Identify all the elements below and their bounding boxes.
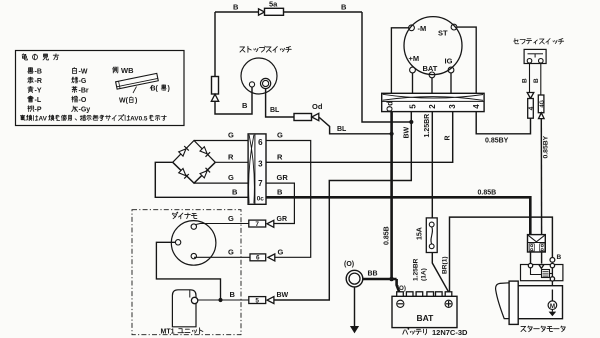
battery plus symbol	[445, 300, 452, 307]
wire 0.85B thick vertical	[390, 112, 393, 279]
diode bottom-left	[179, 169, 189, 179]
wire rect G bottom	[194, 173, 248, 183]
svg-text:B: B	[533, 78, 540, 83]
dynamo dashed box	[132, 210, 241, 335]
svg-text:): )	[168, 86, 170, 93]
fuse 15A	[417, 218, 438, 253]
svg-text:IG: IG	[445, 57, 453, 66]
svg-text:MT1: MT1	[161, 329, 175, 336]
label B	[242, 101, 248, 110]
wire B MT1 to conn5	[198, 290, 249, 300]
connector 4G	[538, 95, 545, 119]
solenoid terminal right	[550, 263, 554, 267]
svg-text:4: 4	[472, 104, 481, 109]
svg-text:B: B	[277, 187, 283, 196]
diode bottom-right	[200, 168, 210, 178]
dynamo terminal left	[175, 240, 180, 245]
MT1 unit body	[172, 290, 196, 327]
junction 0.85B-battery	[389, 277, 394, 282]
mid connector block	[248, 134, 266, 204]
svg-text:-M: -M	[418, 24, 427, 33]
diode top-right	[200, 147, 210, 157]
stop switch body	[241, 58, 277, 94]
wire G dynamo to conn6	[194, 247, 250, 257]
svg-text:R: R	[277, 152, 283, 161]
svg-text:-P: -P	[35, 107, 42, 114]
svg-text:6: 6	[258, 138, 263, 147]
wire ST lead	[457, 27, 476, 93]
wire BB to junction	[362, 278, 396, 281]
svg-text:0c: 0c	[257, 195, 265, 202]
svg-text:12N7C-3D: 12N7C-3D	[432, 328, 468, 337]
svg-text:G: G	[278, 247, 284, 256]
svg-text:R: R	[444, 135, 451, 140]
label 1.25BR rotated	[412, 258, 419, 281]
svg-text:(1A): (1A)	[420, 268, 427, 281]
ignition terminal ST	[438, 24, 457, 37]
wire dynamo left loop	[156, 242, 220, 300]
svg-text:0.85BY: 0.85BY	[542, 135, 549, 158]
wire B fuse-to-BW drop	[362, 12, 411, 122]
battery minus symbol	[397, 300, 404, 307]
wire BW path	[274, 112, 411, 300]
wire X-conn to solenoid mid	[541, 252, 543, 264]
label GR	[277, 216, 288, 223]
svg-text:+M: +M	[409, 54, 420, 63]
stop switch terminal left	[249, 82, 254, 87]
starter X-connector	[528, 235, 546, 252]
solenoid terminal arrow	[539, 265, 544, 269]
svg-text:B: B	[233, 3, 239, 12]
fuse 5a	[259, 0, 284, 15]
label (1A) rotated	[420, 268, 427, 281]
svg-text:0.85B: 0.85B	[384, 226, 391, 245]
label BW	[277, 292, 289, 299]
svg-text:(O): (O)	[397, 285, 406, 292]
label セフティスイッチ	[514, 39, 564, 45]
svg-text:WB: WB	[121, 66, 134, 75]
svg-text:-O: -O	[79, 97, 87, 104]
label BW rotated	[403, 126, 410, 138]
svg-text:0.85BY: 0.85BY	[485, 138, 509, 145]
wire 0.85BY pin4 path	[476, 112, 530, 134]
solenoid terminal B top	[550, 254, 562, 262]
safety terminal right	[539, 59, 544, 64]
label 0.85BY	[485, 138, 509, 145]
svg-text:BR(1): BR(1)	[441, 256, 448, 274]
label BL	[337, 126, 347, 133]
wire BAT lead	[431, 78, 433, 94]
svg-text:M: M	[550, 303, 555, 310]
mid block pin 0c	[257, 195, 265, 202]
label BL	[270, 107, 280, 114]
connector 7	[249, 220, 274, 228]
wire stop-switch left drop	[214, 12, 216, 77]
svg-text:Od: Od	[386, 101, 395, 112]
svg-text:BB: BB	[368, 271, 378, 278]
legend row 青-L 橙-O	[28, 96, 87, 104]
wire -M lead	[391, 28, 408, 94]
svg-text:AV0.5: AV0.5	[130, 116, 148, 123]
svg-text:15A: 15A	[417, 227, 424, 240]
svg-text:B: B	[242, 101, 248, 110]
wire fuse to battery+	[432, 253, 448, 292]
label BR(1) rotated	[441, 256, 448, 274]
wire GR pin7 path	[266, 173, 294, 224]
svg-text:3: 3	[258, 159, 263, 168]
dynamo terminal top	[191, 224, 196, 229]
ignition terminal IG	[445, 57, 454, 73]
rectifier bridge edges	[173, 141, 216, 184]
safety terminal left	[527, 59, 532, 64]
svg-text:6: 6	[256, 255, 260, 262]
label B	[341, 3, 347, 12]
svg-text:-B: -B	[35, 69, 42, 76]
wire G pin6 path	[266, 131, 311, 258]
label (O)	[397, 285, 406, 292]
safety switch body	[524, 49, 546, 63]
svg-text:G: G	[228, 131, 234, 140]
svg-text:BW: BW	[277, 292, 289, 299]
svg-text:-R: -R	[35, 78, 42, 85]
svg-text:BAT: BAT	[417, 313, 435, 323]
wire 0.85BY safety vertical	[540, 119, 542, 235]
dynamo terminal bottom	[191, 253, 196, 258]
label (O)	[344, 261, 354, 268]
solenoid terminal bottom	[550, 277, 554, 281]
svg-text:(O): (O)	[344, 261, 354, 268]
svg-text:1.25BR: 1.25BR	[424, 114, 431, 138]
wire R path	[266, 112, 453, 163]
svg-text:0.85B: 0.85B	[478, 189, 497, 196]
svg-text:4G: 4G	[540, 99, 546, 107]
wire battery minus lead	[397, 279, 400, 292]
label BAT	[417, 313, 435, 323]
svg-text:B: B	[230, 290, 236, 299]
svg-text:R: R	[228, 152, 234, 161]
svg-text:-G: -G	[79, 78, 87, 85]
wire B top-right horizontal	[284, 11, 363, 13]
label スタータモータ	[521, 326, 565, 332]
wire BL to junction	[319, 117, 392, 134]
legend row 黒-B 白-W	[28, 67, 88, 75]
connector 6	[250, 254, 275, 262]
svg-text:7: 7	[255, 221, 259, 228]
svg-text:GR: GR	[277, 173, 289, 182]
ignition terminal +M	[409, 54, 420, 73]
svg-text:-Gy: -Gy	[79, 107, 91, 114]
label G	[278, 247, 284, 256]
ignition terminal -M	[409, 24, 427, 33]
legend row 赤-R 緑-G	[28, 77, 87, 85]
svg-text:Od: Od	[312, 102, 323, 111]
svg-text:BW: BW	[403, 126, 410, 138]
ignition block pin 3	[448, 104, 457, 109]
starter motor nose	[496, 283, 510, 319]
junction MT1-dynamo	[218, 298, 222, 302]
wire 1.25BR vertical	[431, 112, 433, 218]
legend title 色の見方	[22, 54, 59, 60]
legend label W(白)	[119, 97, 137, 105]
ignition connector block	[382, 93, 484, 111]
wire G dynamo to conn7	[196, 214, 249, 225]
wire solenoid to motor	[551, 281, 553, 286]
motor M symbol	[548, 301, 557, 310]
starter motor body	[518, 286, 562, 319]
legend row 黄-Y 茶-Br	[28, 86, 89, 94]
label B	[233, 3, 239, 12]
svg-text:ST: ST	[438, 29, 448, 38]
legend label B(黒)	[151, 85, 170, 93]
label バッテリ 12N7C-3D	[403, 328, 468, 337]
label MT1ユニット	[161, 328, 203, 336]
ignition block pin Od	[386, 101, 395, 112]
ignition block pin 5	[408, 104, 417, 109]
label 0.85BY rotated	[542, 135, 549, 158]
legend note	[20, 114, 166, 122]
mid block pin 7	[258, 179, 263, 188]
wire rect G top	[194, 131, 248, 141]
legend 例 WB	[113, 66, 134, 75]
label 0.85B	[478, 189, 497, 196]
legend row 桃-P 灰-Gy	[28, 106, 91, 114]
label ストップスイッチ	[240, 46, 291, 52]
svg-text:5: 5	[408, 104, 417, 109]
wire safety right drop	[533, 63, 541, 95]
connector Od	[294, 102, 323, 121]
svg-text:G: G	[228, 247, 234, 256]
svg-text:5: 5	[255, 297, 259, 304]
solenoid coil	[531, 268, 553, 278]
ignition terminal BAT	[423, 64, 438, 78]
svg-text:G: G	[277, 131, 283, 140]
MT1 terminal	[191, 297, 197, 303]
motor terminal	[550, 286, 554, 290]
svg-text:-L: -L	[35, 97, 42, 104]
wire 0.85B thick horizontal	[266, 187, 530, 234]
wire safety left drop	[522, 63, 530, 93]
svg-text:-Br: -Br	[79, 88, 89, 95]
wire rect R	[215, 152, 248, 162]
svg-text:BL: BL	[337, 126, 347, 133]
svg-text:3: 3	[448, 104, 457, 109]
connector stop-switch left	[211, 77, 218, 102]
junction BL-0.85B	[390, 132, 394, 136]
wire B top-left horizontal	[215, 11, 259, 13]
label BB	[368, 271, 378, 278]
svg-text:BL: BL	[270, 107, 280, 114]
svg-text:B: B	[232, 187, 238, 196]
wire BR(1) path	[450, 217, 553, 292]
wire X-conn to solenoid left	[530, 252, 532, 264]
svg-text:BAT: BAT	[423, 64, 438, 73]
battery terminals	[397, 292, 452, 297]
svg-text:G: G	[228, 173, 234, 182]
junction B-BW	[409, 120, 413, 124]
wire rectifier left loop	[155, 162, 248, 197]
label R	[277, 152, 283, 161]
connector 5	[249, 297, 274, 305]
wire IG lead	[450, 73, 452, 93]
svg-text:7: 7	[258, 179, 263, 188]
dynamo body	[171, 221, 216, 266]
wire stop-switch left loop	[215, 87, 252, 114]
svg-text:5a: 5a	[269, 0, 278, 9]
ignition block pin 4	[472, 104, 481, 109]
svg-text:): )	[135, 98, 137, 105]
motor ground	[549, 310, 557, 317]
ignition switch body	[404, 17, 462, 75]
svg-text:-Y: -Y	[35, 88, 42, 95]
label ダイナモ	[172, 212, 197, 219]
svg-text:B: B	[341, 3, 347, 12]
stop switch terminal right	[261, 78, 271, 88]
wire +M lead	[412, 73, 414, 93]
diode top-left	[179, 146, 189, 156]
ground lead BB	[346, 270, 363, 287]
svg-text:W(: W(	[119, 98, 129, 105]
ground symbol BB	[350, 287, 359, 334]
battery body	[392, 296, 457, 327]
svg-text:2: 2	[428, 104, 437, 109]
label R rotated	[444, 135, 451, 140]
label B	[232, 187, 238, 196]
svg-text:4: 4	[528, 106, 535, 110]
solenoid terminal left	[528, 263, 532, 267]
svg-text:B: B	[557, 254, 562, 261]
legend box	[16, 51, 185, 126]
ignition block pin 2	[428, 104, 437, 109]
svg-text:AV: AV	[38, 116, 47, 123]
label 1.25BR rotated	[424, 114, 431, 138]
svg-text:-W: -W	[79, 69, 88, 76]
svg-text:B: B	[522, 78, 529, 83]
wire stop-switch right to Od	[266, 89, 294, 117]
svg-text:B(: B(	[151, 86, 159, 93]
mid block pin 3	[258, 159, 263, 168]
legend wire sample	[116, 73, 159, 93]
mid block pin 6	[258, 138, 263, 147]
connector 4	[527, 93, 535, 119]
label 0.85B rotated	[384, 226, 391, 245]
svg-text:G: G	[228, 214, 234, 223]
starter motor flange	[509, 281, 518, 324]
svg-text:GR: GR	[277, 216, 288, 223]
svg-text:1.25BR: 1.25BR	[412, 258, 419, 281]
wire motor internal	[551, 290, 553, 302]
starter solenoid body	[521, 265, 563, 281]
